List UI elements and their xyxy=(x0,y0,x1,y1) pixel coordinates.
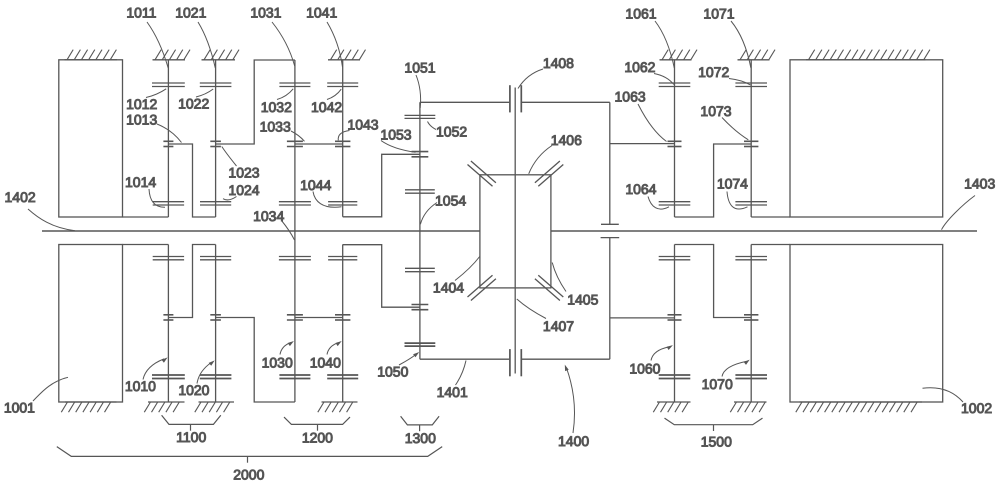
svg-text:1100: 1100 xyxy=(176,429,206,445)
ground hatching below housing 1002 xyxy=(796,402,922,412)
svg-text:2000: 2000 xyxy=(233,467,264,483)
gear shaft 1060 lower xyxy=(674,245,676,403)
svg-text:1033: 1033 xyxy=(260,119,291,135)
leader line 1040 xyxy=(327,343,338,355)
planet gear mesh 1406 (top-right slashes) xyxy=(535,161,563,186)
leader line 1021 xyxy=(198,22,215,68)
small gear 1033 xyxy=(287,141,303,146)
leader line 1402 xyxy=(28,209,75,231)
svg-text:1405: 1405 xyxy=(567,292,598,308)
leader line 1072 xyxy=(729,79,751,86)
leader line 1031 xyxy=(272,22,295,66)
leader line 1011 xyxy=(147,22,168,68)
planet gear mesh 1405 (bottom-right slashes) xyxy=(535,275,563,300)
section brace 2000 xyxy=(57,447,442,463)
svg-text:1021: 1021 xyxy=(175,4,206,20)
leader line 1061 xyxy=(655,21,674,68)
coupling lower T-bar xyxy=(601,237,620,239)
svg-text:1072: 1072 xyxy=(698,64,729,80)
leader arrowhead 1040 xyxy=(336,341,342,346)
ground hatching of shaft 1010 xyxy=(144,402,184,412)
leader line 1001 xyxy=(33,377,68,401)
svg-text:1300: 1300 xyxy=(405,430,436,446)
leader line 1401 xyxy=(456,361,467,386)
link shaft 1061 bottom to gear 1073 xyxy=(675,144,752,217)
leader line 1002 xyxy=(923,388,964,402)
gear shaft 1051 xyxy=(419,102,421,359)
svg-text:1040: 1040 xyxy=(310,355,341,371)
gear on shaft 1020 (lower) xyxy=(200,375,232,379)
hollow shaft link 1023 to shaft 1031 top xyxy=(216,60,295,144)
gear housing 1400 right edge (upper) xyxy=(609,102,611,224)
ground hatching of shaft 1011 xyxy=(153,50,191,60)
svg-text:1044: 1044 xyxy=(300,177,331,193)
gear shaft 1020 xyxy=(215,245,217,403)
svg-text:1023: 1023 xyxy=(228,164,259,180)
link between gears 1033 and 1043 xyxy=(295,143,343,145)
svg-text:1500: 1500 xyxy=(701,433,732,449)
leader line 1062 xyxy=(654,74,674,85)
housing 1002 lower top edge extension xyxy=(751,244,790,246)
svg-text:1041: 1041 xyxy=(306,4,337,20)
lower link mirror 1073 xyxy=(675,245,752,318)
ground hatching of shaft 1040 xyxy=(318,402,358,412)
svg-text:1406: 1406 xyxy=(551,132,582,148)
svg-text:1043: 1043 xyxy=(347,117,378,133)
gear 1062 xyxy=(659,83,691,87)
small gear mirror 1043 xyxy=(335,315,350,320)
section brace 1200 xyxy=(284,417,350,431)
svg-text:1010: 1010 xyxy=(125,378,156,394)
svg-text:1051: 1051 xyxy=(404,60,435,76)
coupling upper T-bar xyxy=(601,223,619,225)
svg-text:1200: 1200 xyxy=(302,430,333,446)
gear 1022 xyxy=(200,83,232,87)
svg-text:1022: 1022 xyxy=(178,95,209,111)
leader line 1013 xyxy=(157,124,182,143)
leader arrowhead 1400 xyxy=(565,365,569,372)
clutch 1408 plates xyxy=(510,85,521,112)
leader line 1030 xyxy=(280,343,291,355)
svg-text:1053: 1053 xyxy=(380,127,411,143)
leader line 1400 xyxy=(567,368,575,433)
leader line 1044 xyxy=(313,192,342,208)
ground hatching below lower housing xyxy=(61,402,116,412)
svg-text:1050: 1050 xyxy=(377,364,408,380)
leader line 1074 xyxy=(727,192,748,210)
svg-text:1407: 1407 xyxy=(543,318,574,334)
gear 1040 (lower) xyxy=(327,375,358,379)
ground hatching of shaft 1070 xyxy=(730,402,766,412)
gear shaft 1010 xyxy=(167,245,169,403)
ground hatching above housing 1001 xyxy=(65,50,118,60)
gear shaft 1011 xyxy=(167,60,169,217)
housing lower top edge extension xyxy=(123,244,169,246)
small gear 1023 xyxy=(210,141,221,146)
small gear mirror 1013 xyxy=(163,315,173,320)
gear 1070 (lower) xyxy=(735,375,767,379)
small gear mirror 1073 xyxy=(744,315,758,320)
gear mirror of 1044 xyxy=(328,257,357,260)
gear shaft 1040 lower xyxy=(342,245,344,403)
gear 1032 xyxy=(279,83,310,87)
leader line 1063 xyxy=(638,104,667,142)
svg-text:1031: 1031 xyxy=(250,4,281,20)
ground hatching of shaft 1041 xyxy=(328,50,366,60)
motor housing 1001 (lower rectangle) xyxy=(59,245,123,403)
gear shaft 1061 xyxy=(674,60,676,217)
leader line 1024 xyxy=(223,197,237,200)
link shaft 1041 bottom to gear 1053 xyxy=(343,154,420,217)
leader line 1034 xyxy=(282,221,295,241)
planet gear mesh 1404 (bottom-left slashes) xyxy=(468,275,496,300)
gear mirror of 1024 xyxy=(200,257,231,260)
gear 1072 xyxy=(735,83,767,87)
small gear mirror 1053 xyxy=(412,305,429,310)
leader line 1406 xyxy=(529,146,552,174)
housing 1002 bottom edge extension to shaft 1071 xyxy=(751,216,790,218)
ground hatching of shaft 1061 xyxy=(660,50,698,60)
main input shaft (right segment) xyxy=(551,230,977,232)
ground hatching of shaft 1060 xyxy=(653,402,690,412)
svg-text:1073: 1073 xyxy=(700,103,731,119)
ground hatching above housing 1002 xyxy=(806,50,930,60)
svg-text:1070: 1070 xyxy=(702,376,733,392)
svg-text:1020: 1020 xyxy=(178,382,209,398)
ground hatching of shaft 1020 xyxy=(195,402,234,412)
gear 1044 xyxy=(328,202,357,205)
gear 1042 xyxy=(327,83,358,87)
svg-text:1408: 1408 xyxy=(543,55,574,71)
leader line 1407 xyxy=(517,299,546,319)
leader line 1022 xyxy=(196,89,213,97)
svg-text:1062: 1062 xyxy=(624,59,655,75)
leader arrowhead 1030 xyxy=(288,341,294,346)
svg-text:1074: 1074 xyxy=(717,176,748,192)
svg-text:1002: 1002 xyxy=(961,400,992,416)
main input shaft 1402/1403 (left segment) xyxy=(42,230,480,232)
leader line 1042 xyxy=(327,89,341,99)
ground hatching of shaft 1071 xyxy=(738,50,776,60)
gear housing 1400 right edge (lower) xyxy=(609,238,611,360)
leader line 1405 xyxy=(552,263,566,292)
motor housing 1001 (upper rectangle) xyxy=(59,60,123,217)
leader line 1052 xyxy=(428,122,437,130)
svg-text:1064: 1064 xyxy=(625,181,656,197)
leader line 1012 xyxy=(146,89,166,98)
ground hatching of shaft 1021 xyxy=(202,50,240,60)
lower link mirror 1053 xyxy=(343,245,420,308)
leader line 1070 xyxy=(722,361,746,376)
gear 1064 xyxy=(659,202,691,205)
gear mirror of 1034 xyxy=(279,257,311,260)
small gear 1013 xyxy=(163,141,173,146)
planet carrier frame xyxy=(480,175,551,288)
gear shaft 1031 (through axis) xyxy=(294,60,296,402)
leader line 1051 xyxy=(416,75,421,108)
gear mirror of 1054 xyxy=(405,268,435,271)
lower link between mirror gears 1033/1043 xyxy=(295,317,343,319)
leader arrowhead 1010 xyxy=(162,357,168,362)
section brace 1300 xyxy=(401,416,440,431)
svg-text:1403: 1403 xyxy=(964,176,995,192)
svg-text:1052: 1052 xyxy=(436,124,467,140)
gear shaft 1070 lower xyxy=(750,245,752,403)
lower link ring gear to mirror gear 1063 xyxy=(610,317,675,319)
svg-text:1400: 1400 xyxy=(558,433,589,449)
small gear 1053 xyxy=(412,152,429,157)
svg-text:1401: 1401 xyxy=(437,384,468,400)
link ring gear to gear 1063 xyxy=(610,143,675,145)
section brace 1500 xyxy=(665,418,763,431)
gear housing 1400 top edge (right part) xyxy=(522,101,610,103)
gear housing 1400 top edge (left part) xyxy=(420,101,509,103)
small gear 1063 xyxy=(668,141,682,146)
gear 1012 xyxy=(152,83,185,87)
svg-text:1061: 1061 xyxy=(625,5,656,21)
svg-text:1404: 1404 xyxy=(433,279,464,295)
section brace 1100 xyxy=(162,415,221,431)
svg-text:1042: 1042 xyxy=(311,99,342,115)
leader line 1032 xyxy=(277,89,293,100)
leader line 1073 xyxy=(722,118,748,140)
clutch 1401 plates (bottom) xyxy=(510,349,521,376)
gear mirror of 1074 xyxy=(735,257,767,260)
leader line 1054 xyxy=(420,203,437,225)
leader arrowhead 1070 xyxy=(744,360,750,365)
svg-text:1034: 1034 xyxy=(253,208,284,224)
svg-text:1402: 1402 xyxy=(5,189,36,205)
svg-text:1063: 1063 xyxy=(615,89,646,105)
gear housing 1400 bottom edge (right part) xyxy=(522,358,610,360)
svg-text:1024: 1024 xyxy=(228,182,259,198)
gear shaft 1041 xyxy=(342,60,344,217)
gear shaft 1021 xyxy=(215,60,217,217)
leader line 1060 xyxy=(651,347,669,361)
leader line 1064 xyxy=(648,197,669,210)
planet gear mesh 1406 (top-left slashes) xyxy=(468,161,496,186)
small gear 1043 xyxy=(335,141,350,146)
svg-text:1032: 1032 xyxy=(261,99,292,115)
svg-text:1012: 1012 xyxy=(126,96,157,112)
motor housing 1002 (lower rectangle) xyxy=(790,245,943,403)
gear 1054 xyxy=(405,190,435,193)
leader line 1014 xyxy=(149,189,165,207)
svg-text:1071: 1071 xyxy=(703,5,734,21)
gear 1034 xyxy=(279,202,311,205)
svg-text:1030: 1030 xyxy=(262,355,293,371)
svg-text:1054: 1054 xyxy=(435,193,466,209)
gear mirror of 1064 xyxy=(659,257,691,260)
gear housing 1400 bottom edge (left part) xyxy=(420,358,509,360)
gear 1074 xyxy=(735,202,767,205)
svg-text:1001: 1001 xyxy=(4,399,35,415)
leader arrowhead 1020 xyxy=(209,360,215,365)
sun shaft 1407 (center column) xyxy=(514,88,516,374)
svg-text:1011: 1011 xyxy=(126,4,156,20)
motor housing 1002 (upper rectangle) xyxy=(790,60,943,217)
leader line 1041 xyxy=(327,22,343,67)
leader line 1023 xyxy=(222,147,237,167)
small gear 1073 xyxy=(744,141,758,146)
leader line 1408 xyxy=(518,69,543,89)
leader line 1404 xyxy=(455,257,480,281)
small gear mirror 1023 xyxy=(210,315,221,320)
hollow shaft link 1013 to shaft 1021 bottom xyxy=(168,144,215,217)
leader line 1053 xyxy=(381,141,416,153)
gear 1024 xyxy=(200,202,231,205)
gear on shaft 1010 (lower) xyxy=(152,375,185,379)
small gear mirror 1063 xyxy=(668,315,682,320)
leader line 1403 xyxy=(942,196,976,230)
leader line 1010 xyxy=(143,359,164,380)
housing 1001 bottom edge extension to shaft 1011 xyxy=(123,216,169,218)
gear 1030 (lower) xyxy=(279,375,310,379)
gear 1014 xyxy=(153,202,184,205)
small gear mirror 1033 xyxy=(287,315,303,320)
gear mirror of 1014 xyxy=(153,257,184,260)
leader line 1020 xyxy=(197,362,212,383)
gear 1052 xyxy=(405,115,436,118)
leader line 1050 xyxy=(399,355,416,365)
gear 1060 (lower) xyxy=(659,375,691,379)
leader line 1033 xyxy=(291,131,305,141)
lower link mirror 1013 xyxy=(168,245,215,318)
leader arrowhead 1050 xyxy=(413,352,419,357)
lower link mirror 1023 xyxy=(216,318,295,403)
svg-text:1013: 1013 xyxy=(126,112,157,128)
gear shaft 1071 xyxy=(750,60,752,217)
leader line 1043 xyxy=(338,131,349,141)
svg-text:1060: 1060 xyxy=(629,360,660,376)
svg-text:1014: 1014 xyxy=(125,174,156,190)
gear mirror of 1052 xyxy=(405,343,436,346)
leader arrowhead 1060 xyxy=(667,345,673,350)
leader line 1071 xyxy=(731,21,751,68)
